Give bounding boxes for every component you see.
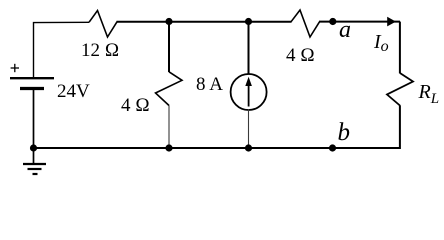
node a dot — [329, 18, 336, 25]
resistor 4ohm middle zigzag — [156, 72, 183, 106]
node dot top of 4-ohm branch — [165, 18, 172, 25]
resistor RL zigzag — [387, 73, 413, 106]
label 12 ohm — [81, 40, 119, 62]
label 8 A — [196, 74, 223, 96]
node dot bottom left above ground — [30, 144, 37, 151]
node dot bottom of current source — [245, 144, 252, 151]
label 24V — [57, 81, 90, 103]
node b dot — [329, 144, 336, 151]
wire middle 4-ohm branch bottom thin lead — [168, 105, 170, 148]
battery V1 bottom plate — [20, 87, 44, 90]
wire current source top lead — [248, 22, 250, 75]
ground symbol — [33, 148, 35, 163]
label 4 ohm middle — [121, 95, 150, 117]
label 4 ohm top right — [286, 45, 315, 67]
wire right side down to RL — [399, 22, 401, 74]
wire bottom bus — [34, 147, 401, 149]
node dot top of current source — [245, 18, 252, 25]
resistor 4ohm top zigzag — [291, 10, 320, 37]
wire battery bottom lead — [33, 89, 35, 149]
node dot bottom of 4-ohm branch — [165, 144, 172, 151]
battery V1 top plate — [10, 77, 54, 79]
arrowhead Io — [387, 17, 396, 27]
label Io current — [374, 31, 389, 54]
resistor R 12ohm zigzag — [89, 11, 117, 38]
current source I1 circle 8A — [231, 74, 267, 110]
wire RL bottom lead to bottom-right corner — [333, 105, 400, 148]
label node b — [338, 119, 351, 147]
arrow inside current source — [248, 84, 250, 107]
wire middle 4-ohm branch top lead — [168, 22, 170, 73]
wire top-left thin segment (battery corner to 12-ohm resistor) — [34, 22, 90, 77]
label node a — [339, 17, 351, 44]
wire node to node a and arrow run — [319, 21, 400, 23]
wire current source bottom thin lead — [248, 110, 250, 149]
wire top middle (12-ohm to top 4-ohm) — [117, 21, 292, 23]
plus sign of battery — [11, 67, 19, 69]
label RL — [419, 81, 440, 104]
